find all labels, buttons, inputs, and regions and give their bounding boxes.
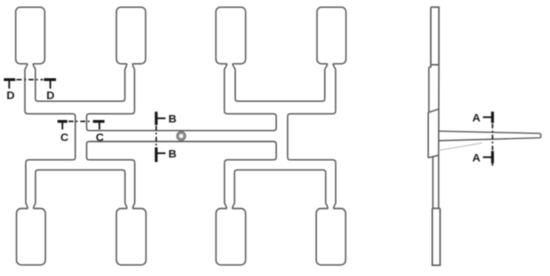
feed tube P2 — [125, 64, 135, 111]
runner right end wall / branch walls right group — [274, 116, 288, 159]
svg-text:D: D — [7, 90, 15, 102]
section line A-A dash-dot — [491, 112, 494, 166]
section line C-C dash-dot — [58, 120, 105, 123]
pad P4 (top row) — [317, 7, 346, 64]
pad P6 (bottom row) — [116, 209, 146, 265]
svg-text:C: C — [96, 132, 104, 144]
section tick D right — [49, 80, 51, 89]
feed tube P1 — [25, 64, 36, 111]
label B top — [168, 114, 176, 126]
pad P8 (bottom row) — [316, 209, 345, 265]
side view lower tube slab — [433, 155, 439, 208]
section tick A top — [483, 116, 493, 118]
svg-text:C: C — [60, 132, 68, 144]
lower sub-runner BR — [225, 160, 336, 173]
svg-text:A: A — [472, 153, 480, 165]
corner runner-right-wall to lower sub BR — [288, 157, 291, 160]
section line B-B dash-dot — [155, 112, 158, 162]
label D right — [46, 90, 54, 102]
sprue spike top edge — [439, 131, 541, 138]
lower sub-runner BL — [26, 160, 135, 173]
section tick C right — [98, 121, 100, 129]
label C right — [96, 132, 104, 144]
section tick B bottom — [156, 152, 165, 154]
sprue boss inner circle — [179, 133, 184, 138]
feed tube P5 — [26, 163, 36, 209]
svg-text:A: A — [472, 113, 480, 125]
pad P7 (bottom row) — [216, 209, 246, 265]
label A top — [472, 113, 480, 125]
side view jog below top slab — [429, 65, 431, 67]
sprue spike taper line (faint) — [439, 143, 482, 151]
label B bottom — [168, 148, 176, 160]
corner runner-left-wall to lower sub TL — [73, 157, 76, 160]
pad P5 (bottom row) — [17, 209, 46, 265]
side view step line 2 (lower sub level) — [428, 155, 438, 158]
pad P1 (top row) — [16, 7, 45, 64]
side view bottom pads slab edge-on — [432, 208, 440, 265]
label A bottom — [472, 153, 480, 165]
section tick A bottom — [483, 156, 493, 158]
side view step line 1 (sub-runner level) — [428, 109, 439, 113]
feed tube P8 — [326, 163, 336, 209]
central runner bar — [89, 131, 273, 142]
feed tube P3 — [224, 64, 235, 111]
feed tube P7 — [225, 163, 235, 209]
label D left — [7, 90, 15, 102]
side view top pads slab edge-on — [431, 7, 439, 65]
svg-text:D: D — [46, 90, 54, 102]
pad P3 (top row) — [216, 7, 246, 64]
section tick B top — [156, 117, 165, 119]
svg-text:B: B — [168, 114, 176, 126]
side view mid slab right edge — [438, 65, 440, 156]
feed tube P6 — [125, 163, 135, 209]
section tick C left — [61, 121, 63, 129]
section tick D left — [8, 80, 10, 89]
side view mid slab left edge — [427, 67, 430, 158]
feed tube P4 — [325, 64, 336, 111]
pad P2 (top row) — [116, 7, 145, 64]
runner left end wall / branch walls left group — [75, 116, 89, 159]
upper sub-runner TL — [25, 99, 135, 117]
label C left — [60, 132, 68, 144]
svg-text:B: B — [168, 148, 176, 160]
sprue spike bottom edge — [439, 138, 539, 141]
sprue boss outer circle — [177, 132, 186, 141]
upper sub-runner TR — [224, 99, 335, 117]
section line D-D dash-dot — [4, 78, 56, 81]
